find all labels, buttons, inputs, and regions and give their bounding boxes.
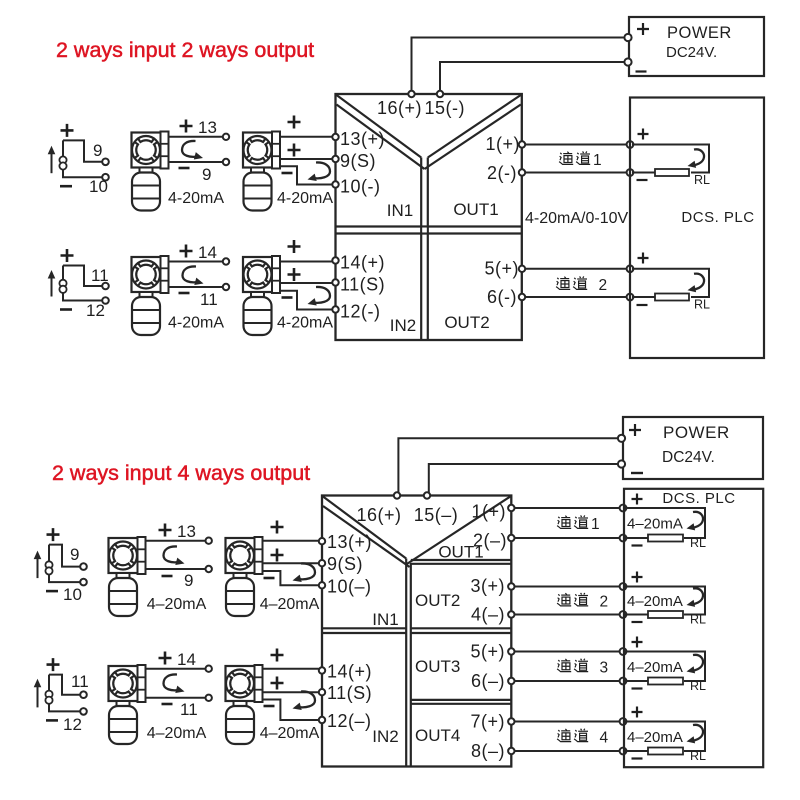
minus label TX1 D1r1: [179, 167, 190, 170]
minus label TX1 D1r2: [179, 292, 190, 295]
channel label tongdao4 D2: [557, 729, 608, 747]
svg-text:4–20mA: 4–20mA: [627, 729, 683, 746]
svg-text:1: 1: [593, 152, 602, 169]
power - terminal D1: [624, 58, 631, 65]
svg-text:RL: RL: [690, 536, 706, 550]
pin out1- D2: [508, 535, 514, 541]
wire out2+ D2: [513, 586, 623, 588]
signal source S2 D1: [48, 266, 109, 304]
pin12 D1: [332, 306, 338, 312]
signal source S1 D2: [34, 545, 87, 586]
pin12 D2: [319, 717, 325, 723]
pin13 D1: [332, 134, 338, 140]
resistor RL ch2 D2: [648, 611, 683, 618]
flow arrow ch2 D1: [692, 274, 704, 290]
plus label1 TX2 D2r2: [271, 649, 284, 662]
wire TX2 to 12(-) D2r2: [263, 700, 319, 721]
svg-text:4–20mA: 4–20mA: [260, 596, 320, 613]
svg-text:7(+): 7(+): [470, 712, 505, 732]
svg-text:10: 10: [63, 585, 82, 604]
flow arrow TX1 D1r2: [183, 266, 199, 282]
wire out1- D1: [522, 172, 630, 174]
svg-text:4–20mA: 4–20mA: [627, 659, 683, 676]
plus label TX1 D2r1: [159, 524, 172, 537]
dcs ch2+ D2: [620, 583, 627, 590]
svg-text:12(-): 12(-): [340, 302, 381, 322]
svg-text:4(–): 4(–): [471, 605, 505, 625]
wire TX2 to 11(S) D2r2: [263, 691, 319, 693]
wire out1+ D1: [522, 144, 630, 146]
flow arrow TX2 D2r1: [298, 563, 315, 579]
dcs ch2+ D1: [627, 265, 634, 272]
wire TX1- D2r2: [146, 697, 206, 699]
terminal 9 wire D2r1: [206, 566, 212, 572]
minus label TX2 D1r2: [282, 296, 293, 299]
pin10 D2: [319, 582, 325, 588]
svg-text:IN2: IN2: [372, 727, 398, 746]
pin1 D1: [519, 141, 525, 147]
dcs ch4+ D2: [620, 718, 627, 725]
signal source S2 D2: [34, 675, 87, 715]
svg-text:DCS. PLC: DCS. PLC: [681, 209, 754, 226]
dcs loop ch1 D1: [632, 145, 709, 173]
svg-text:IN2: IN2: [390, 316, 416, 335]
flow arrow TX1 D2r2: [164, 674, 180, 690]
terminal 11 wire D2r2: [206, 695, 212, 701]
channel label tongdao3 D2: [557, 659, 608, 677]
svg-text:16(+): 16(+): [357, 505, 402, 525]
wire power+ to pin16 D1: [412, 38, 628, 92]
wire out2- D1: [522, 296, 630, 298]
minus label TX1 D2r2: [162, 703, 173, 706]
svg-text:4–20mA: 4–20mA: [627, 593, 683, 610]
wire TX2 to 13(+) D2r1: [263, 540, 319, 542]
svg-text:RL: RL: [690, 679, 706, 693]
transmitter TX2 D2 row2: [226, 665, 263, 744]
svg-text:9(S): 9(S): [327, 554, 363, 574]
svg-text:OUT2: OUT2: [444, 313, 489, 332]
minus label dcs ch2 D2: [632, 621, 643, 623]
plus label dcs ch4 D2: [632, 707, 643, 718]
svg-text:11: 11: [71, 672, 89, 691]
svg-text:5(+): 5(+): [484, 259, 519, 279]
channel label tongdao1 D1: [559, 151, 602, 169]
minus label TX2 D2r1: [264, 577, 275, 580]
flow arrow TX2 D1r1: [313, 162, 330, 178]
minus label S2 D2: [46, 719, 58, 722]
pin13 D2: [319, 538, 325, 544]
wire out2+ D1: [522, 268, 630, 270]
svg-text:14(+): 14(+): [327, 662, 372, 682]
dcs loop ch1 D2: [625, 508, 705, 538]
svg-text:RL: RL: [690, 749, 706, 763]
transmitter TX2 D2 row1: [226, 537, 263, 616]
pin2 D1: [519, 169, 525, 175]
plus label S2 D2: [47, 658, 60, 671]
resistor RL ch2 D1: [655, 294, 689, 301]
svg-text:4-20mA: 4-20mA: [277, 190, 333, 207]
svg-text:5(+): 5(+): [470, 642, 505, 662]
plus label dcs ch3 D2: [632, 637, 643, 648]
minus label S2 D1: [60, 308, 72, 311]
svg-text:14: 14: [198, 243, 217, 262]
minus label TX2 D1r1: [282, 172, 293, 175]
svg-text:4-20mA: 4-20mA: [277, 315, 333, 332]
svg-text:4: 4: [600, 729, 609, 746]
plus label2 TX2 D1r1: [288, 144, 301, 157]
plus label1 TX2 D1r2: [288, 240, 301, 253]
svg-text:2(-): 2(-): [487, 163, 517, 183]
POWER box D1: [629, 17, 764, 76]
plus label1 TX2 D2r1: [271, 521, 284, 534]
svg-text:3(+): 3(+): [470, 576, 505, 596]
isolator box D1: [336, 94, 522, 340]
terminal 14 wire D1r2: [223, 258, 229, 264]
svg-text:15(-): 15(-): [425, 98, 466, 118]
flow arrow TX2 D1r2: [313, 287, 330, 303]
channel label tongdao2 D2: [557, 593, 608, 611]
pin11 D1: [332, 279, 338, 285]
pin9 D1: [332, 156, 338, 162]
resistor RL ch4 D2: [648, 748, 683, 755]
svg-text:RL: RL: [694, 173, 710, 187]
plus label2 TX2 D2r1: [271, 549, 284, 562]
plus label dcs ch2 D2: [632, 572, 643, 583]
transmitter TX2 D1 row1: [243, 132, 280, 211]
plus label S2 D1: [61, 249, 74, 262]
minus terminal label power D1: [636, 70, 647, 72]
flow arrow ch1 D2: [691, 512, 703, 528]
svg-text:11: 11: [200, 290, 218, 309]
terminal 9 wire D1r1: [223, 159, 229, 165]
plus label1 TX2 D1r1: [288, 116, 301, 129]
dcs ch2- D1: [627, 294, 634, 301]
flow arrow TX1 D1r1: [182, 141, 198, 157]
pin9 D2: [319, 560, 325, 566]
dcs ch4- D2: [620, 748, 627, 755]
wire TX2 to 9(S) D1r1: [280, 158, 333, 160]
pin16 terminal D1: [408, 91, 414, 97]
svg-text:6(–): 6(–): [471, 671, 505, 691]
wire TX1+ D1r2: [169, 261, 223, 263]
dcs ch1+ D2: [620, 505, 627, 512]
isolator box D2: [322, 496, 511, 767]
pin6 D1: [519, 294, 525, 300]
svg-text:12: 12: [86, 301, 105, 320]
svg-text:9: 9: [184, 571, 193, 590]
svg-text:1(+): 1(+): [485, 134, 520, 154]
svg-text:10(-): 10(-): [340, 177, 381, 197]
dcs loop ch2 D2: [625, 587, 705, 615]
transmitter TX1 D1 row2: [132, 256, 169, 335]
wire out1- D2: [513, 537, 623, 539]
svg-text:4-20mA: 4-20mA: [168, 315, 224, 332]
plus label dcs ch2 D1: [638, 253, 649, 264]
svg-text:4–20mA: 4–20mA: [147, 725, 207, 742]
dcs ch1- D1: [627, 169, 634, 176]
svg-text:1(+): 1(+): [471, 502, 506, 522]
pin out2- D2: [508, 611, 514, 617]
svg-text:13(+): 13(+): [327, 532, 372, 552]
transmitter TX1 D2 row1: [109, 537, 146, 616]
terminal 14 wire D2r2: [206, 666, 212, 672]
wire out3- D2: [513, 680, 623, 682]
Y divider D1: [337, 95, 422, 158]
minus terminal label power D2: [631, 472, 643, 474]
power + terminal D1: [624, 34, 631, 41]
svg-text:11(S): 11(S): [327, 683, 372, 703]
svg-text:DC24V.: DC24V.: [662, 449, 715, 466]
plus label2 TX2 D2r2: [271, 677, 284, 690]
wire out3+ D2: [513, 651, 623, 653]
svg-text:13(+): 13(+): [340, 129, 385, 149]
signal source S1 D1: [48, 140, 109, 180]
pin14 D2: [319, 667, 325, 673]
plus label TX1 D1r1: [180, 120, 193, 133]
plus terminal label power D2: [629, 424, 641, 436]
minus label dcs ch2 D1: [637, 304, 648, 306]
pin out4+ D2: [508, 718, 514, 724]
flow arrow TX1 D2r1: [164, 546, 180, 562]
wire TX1+ D2r1: [146, 540, 206, 542]
plus label dcs ch1 D2: [632, 494, 643, 505]
svg-text:4–20mA: 4–20mA: [260, 725, 320, 742]
wire out4- D2: [513, 750, 623, 752]
terminal 11 wire D1r2: [223, 284, 229, 290]
svg-text:3: 3: [600, 659, 609, 676]
svg-text:POWER: POWER: [667, 24, 732, 42]
POWER box D2: [623, 417, 763, 479]
svg-text:9: 9: [70, 545, 79, 564]
resistor RL ch3 D2: [648, 678, 683, 685]
svg-text:OUT4: OUT4: [415, 726, 460, 745]
Y divider D2: [323, 497, 406, 559]
wire power+ to pin16 D2: [398, 438, 621, 493]
svg-text:13: 13: [177, 522, 196, 541]
dcs ch3+ D2: [620, 648, 627, 655]
wire TX1+ D1r1: [169, 136, 223, 138]
divider OUT1/OUT2 D2: [411, 559, 511, 561]
svg-text:OUT3: OUT3: [415, 657, 460, 676]
minus label TX2 D2r2: [264, 705, 275, 708]
svg-text:15(–): 15(–): [414, 505, 459, 525]
pin5 D1: [519, 266, 525, 272]
svg-text:OUT1: OUT1: [453, 200, 498, 219]
dcs ch1- D2: [620, 535, 627, 542]
flow arrow ch3 D2: [691, 655, 703, 671]
minus label S1 D1: [60, 185, 72, 188]
pin out3- D2: [508, 678, 514, 684]
svg-text:9: 9: [202, 165, 211, 184]
svg-text:13: 13: [198, 118, 217, 137]
wire TX1+ D2r2: [146, 668, 206, 670]
plus label2 TX2 D1r2: [288, 268, 301, 281]
wire TX2 to 12(-) D1r2: [280, 291, 333, 310]
svg-text:12: 12: [63, 715, 82, 734]
svg-text:IN1: IN1: [387, 201, 413, 220]
minus label dcs ch4 D2: [632, 757, 643, 759]
wire power- to pin15 D2: [429, 464, 621, 493]
dcs ch1+ D1: [627, 141, 634, 148]
wire TX2 to 9(S) D2r1: [263, 562, 319, 564]
minus label dcs ch1 D2: [632, 544, 643, 546]
pin out3+ D2: [508, 648, 514, 654]
svg-text:RL: RL: [690, 613, 706, 627]
svg-text:14: 14: [177, 650, 196, 669]
svg-text:DCS. PLC: DCS. PLC: [662, 490, 735, 507]
svg-text:10: 10: [89, 177, 108, 196]
svg-text:IN1: IN1: [372, 610, 398, 629]
svg-text:2 ways input 2 ways output: 2 ways input 2 ways output: [56, 38, 314, 62]
wire TX1- D1r2: [169, 286, 223, 288]
channel label tongdao2 D1: [556, 276, 607, 294]
wire power- to pin15 D1: [440, 62, 627, 91]
pin out1+ D2: [508, 505, 514, 511]
dcs loop ch3 D2: [625, 652, 705, 682]
terminal 13 wire D2r1: [206, 538, 212, 544]
minus label dcs ch3 D2: [632, 687, 643, 689]
power + terminal D2: [618, 435, 625, 442]
transmitter TX2 D1 row2: [243, 256, 280, 335]
resistor RL ch1 D1: [655, 169, 689, 176]
transmitter TX1 D1 row1: [132, 132, 169, 211]
wire TX2 to 11(S) D1r2: [280, 282, 333, 284]
minus label TX1 D2r1: [162, 575, 173, 578]
divider IN1/IN2 D2: [323, 627, 407, 629]
pin16 terminal D2: [394, 492, 400, 498]
wire TX2 to 14(+) D2r2: [263, 668, 319, 670]
svg-text:4-20mA: 4-20mA: [168, 190, 224, 207]
minus label dcs ch1 D1: [637, 179, 648, 181]
svg-text:DC24V.: DC24V.: [666, 44, 717, 61]
power - terminal D2: [618, 460, 625, 467]
wire out2- D2: [513, 614, 623, 616]
svg-text:4-20mA/0-10V: 4-20mA/0-10V: [525, 210, 628, 227]
transmitter TX1 D2 row2: [109, 665, 146, 744]
svg-text:6(-): 6(-): [487, 287, 517, 307]
svg-text:2 ways input 4 ways output: 2 ways input 4 ways output: [52, 461, 310, 485]
flow arrow ch2 D2: [691, 588, 703, 604]
flow arrow ch4 D2: [691, 725, 703, 741]
svg-text:4–20mA: 4–20mA: [147, 596, 207, 613]
DCS PLC box D2: [624, 489, 763, 767]
minus label S1 D2: [46, 590, 58, 593]
plus label TX1 D1r2: [180, 245, 193, 258]
svg-text:11: 11: [180, 700, 198, 719]
divider OUT3/OUT4 D2: [411, 699, 511, 701]
svg-text:4–20mA: 4–20mA: [627, 516, 683, 533]
plus label S1 D1: [61, 124, 74, 137]
plus label S1 D2: [47, 528, 60, 541]
svg-text:11(S): 11(S): [340, 275, 385, 295]
dcs loop ch2 D1: [632, 269, 709, 297]
pin11 D2: [319, 689, 325, 695]
pin out2+ D2: [508, 583, 514, 589]
svg-text:8(–): 8(–): [471, 741, 505, 761]
svg-text:OUT2: OUT2: [415, 591, 460, 610]
svg-text:10(–): 10(–): [327, 577, 372, 597]
svg-text:9(S): 9(S): [340, 151, 376, 171]
dcs ch2- D2: [620, 611, 627, 618]
svg-text:12(–): 12(–): [327, 711, 372, 731]
wire out1+ D2: [513, 507, 623, 509]
flow arrow TX2 D2r2: [298, 691, 315, 707]
resistor RL ch1 D2: [648, 535, 683, 542]
wire TX2 to 10(-) D1r1: [280, 166, 333, 184]
wire out4+ D2: [513, 721, 623, 723]
svg-text:1: 1: [591, 516, 600, 533]
wire TX1- D2r1: [146, 568, 206, 570]
wire TX2 to 10(-) D2r1: [263, 571, 319, 585]
svg-text:9: 9: [93, 141, 102, 160]
divider OUT2/OUT3 D2: [411, 627, 511, 629]
svg-text:POWER: POWER: [663, 423, 730, 442]
plus label dcs ch1 D1: [638, 129, 649, 140]
wire TX2 to 14(+) D1r2: [280, 261, 333, 263]
svg-text:2(–): 2(–): [473, 531, 507, 551]
svg-text:14(+): 14(+): [340, 253, 385, 273]
pin14 D1: [332, 257, 338, 263]
pin10 D1: [332, 181, 338, 187]
svg-text:11: 11: [91, 266, 109, 285]
wire TX1- D1r1: [169, 161, 223, 163]
svg-text:16(+): 16(+): [377, 98, 422, 118]
pin15 terminal D2: [424, 492, 430, 498]
plus terminal label power D1: [637, 23, 649, 35]
terminal 13 wire D1r1: [223, 134, 229, 140]
svg-text:2: 2: [600, 594, 609, 611]
pin out4- D2: [508, 748, 514, 754]
pin15 terminal D1: [437, 91, 443, 97]
wire TX2 to 13(+) D1r1: [280, 136, 333, 138]
plus label TX1 D2r2: [159, 652, 172, 665]
dcs ch3- D2: [620, 678, 627, 685]
flow arrow ch1 D1: [692, 149, 704, 165]
dcs loop ch4 D2: [625, 722, 705, 752]
horizontal divider D1: [336, 225, 521, 227]
svg-text:2: 2: [599, 277, 608, 294]
DCS PLC box D1: [630, 98, 764, 359]
channel label tongdao1 D2: [557, 515, 600, 533]
svg-text:RL: RL: [694, 298, 710, 312]
